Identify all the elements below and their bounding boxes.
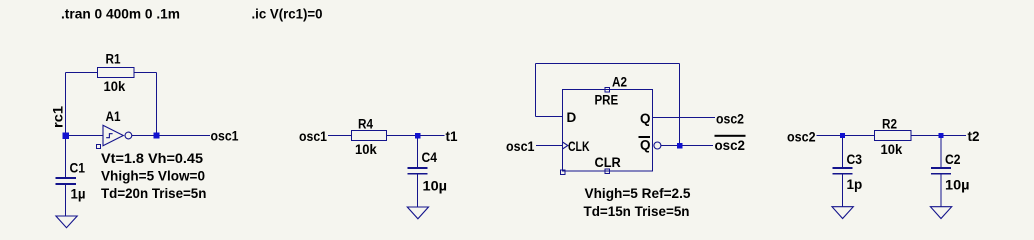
svg-text:.ic V(rc1)=0: .ic V(rc1)=0 (252, 7, 323, 22)
svg-text:10µ: 10µ (423, 179, 448, 194)
svg-text:osc1: osc1 (506, 139, 535, 154)
svg-text:D: D (567, 110, 577, 125)
svg-text:C2: C2 (945, 152, 961, 167)
svg-text:1p: 1p (847, 177, 863, 192)
svg-text:A2: A2 (612, 75, 627, 90)
svg-text:osc2: osc2 (787, 130, 816, 145)
svg-text:osc2: osc2 (716, 112, 744, 127)
svg-text:C3: C3 (847, 152, 863, 167)
svg-text:R2: R2 (882, 117, 897, 132)
svg-text:CLK: CLK (568, 139, 590, 154)
svg-text:t1: t1 (446, 129, 458, 144)
svg-text:10k: 10k (881, 142, 903, 157)
svg-text:1µ: 1µ (71, 187, 86, 202)
svg-text:CLR: CLR (595, 155, 622, 170)
svg-text:10µ: 10µ (945, 178, 970, 193)
svg-text:osc1: osc1 (299, 129, 327, 144)
svg-text:osc1: osc1 (211, 129, 239, 144)
svg-text:Td=15n Trise=5n: Td=15n Trise=5n (584, 204, 690, 219)
svg-text:.tran 0 400m 0 .1m: .tran 0 400m 0 .1m (61, 7, 180, 22)
svg-text:Q: Q (640, 138, 651, 153)
svg-text:10k: 10k (104, 79, 126, 94)
svg-text:C4: C4 (422, 150, 438, 165)
svg-text:osc2: osc2 (715, 138, 746, 153)
svg-text:Vhigh=5 Ref=2.5: Vhigh=5 Ref=2.5 (585, 186, 691, 201)
svg-text:Vt=1.8 Vh=0.45: Vt=1.8 Vh=0.45 (101, 151, 204, 166)
svg-text:R4: R4 (358, 117, 373, 132)
svg-text:rc1: rc1 (51, 105, 66, 128)
svg-text:PRE: PRE (595, 93, 619, 108)
svg-text:Vhigh=5 Vlow=0: Vhigh=5 Vlow=0 (101, 169, 205, 184)
svg-text:10k: 10k (355, 142, 377, 157)
svg-text:Q: Q (640, 111, 651, 126)
svg-text:Td=20n Trise=5n: Td=20n Trise=5n (101, 186, 206, 201)
svg-text:A1: A1 (106, 109, 121, 124)
svg-text:C1: C1 (70, 161, 86, 176)
svg-text:t2: t2 (968, 129, 980, 144)
svg-text:R1: R1 (106, 52, 121, 67)
